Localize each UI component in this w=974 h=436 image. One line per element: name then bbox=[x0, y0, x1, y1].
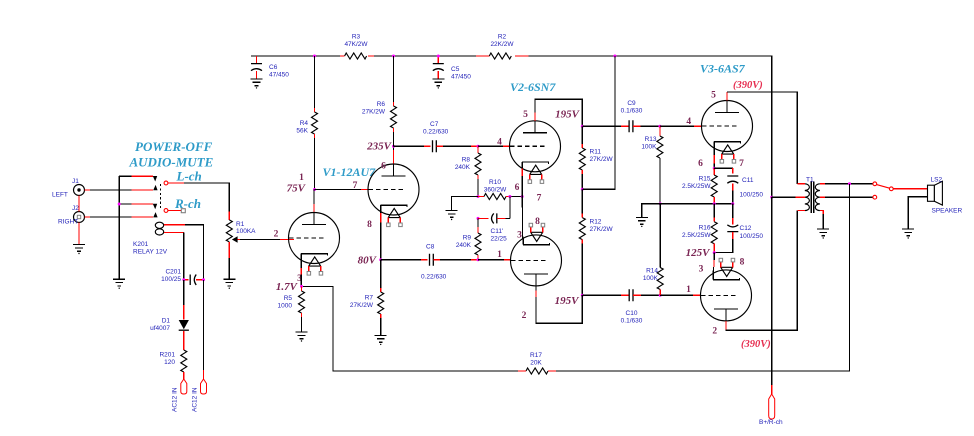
wire secondary bottom to ground bbox=[820, 211, 823, 229]
svg-text:R13: R13 bbox=[645, 136, 657, 143]
wire C10 node to V3b pin 1 bbox=[660, 285, 700, 295]
terminal AC12 IN (1) bbox=[172, 379, 187, 412]
svg-text:C7: C7 bbox=[430, 121, 439, 128]
svg-text:V1-12AU7: V1-12AU7 bbox=[323, 165, 377, 179]
wire C7 to V2a grid node bbox=[436, 145, 478, 147]
wire 235V node to C7 bbox=[394, 145, 431, 147]
svg-text:7: 7 bbox=[739, 159, 744, 169]
wire parallel bar R10/C11' bbox=[509, 197, 511, 219]
triode V3b (6AS7 bottom half, inverted) bbox=[701, 258, 752, 321]
node C201 left bbox=[182, 278, 185, 281]
svg-text:195V: 195V bbox=[555, 109, 581, 121]
terminal B+/R-ch bbox=[759, 394, 783, 426]
contact pole circle L-ch bbox=[164, 181, 168, 185]
resistor R5 1000 bbox=[278, 286, 305, 332]
ground (bias network) bbox=[446, 211, 458, 221]
svg-text:AC12 IN: AC12 IN bbox=[192, 387, 199, 412]
wire speaker return to ground bbox=[908, 197, 927, 229]
diode D1 uf4007 bbox=[150, 318, 189, 333]
node C10 tap (V2b plate) bbox=[581, 294, 584, 297]
svg-text:6: 6 bbox=[698, 159, 703, 169]
svg-text:C8: C8 bbox=[426, 244, 435, 251]
svg-text:RELAY 12V: RELAY 12V bbox=[133, 249, 168, 256]
wire J1 to relay NO contact bbox=[85, 189, 153, 191]
svg-text:100K: 100K bbox=[641, 144, 657, 151]
svg-text:27K/2W: 27K/2W bbox=[350, 302, 374, 309]
svg-text:0.1/630: 0.1/630 bbox=[621, 108, 643, 115]
svg-text:20K: 20K bbox=[530, 360, 542, 367]
capacitor C10 0.1/630 bbox=[582, 289, 660, 324]
capacitor C5 47/450 bbox=[433, 56, 471, 81]
svg-text:27K/2W: 27K/2W bbox=[590, 226, 614, 233]
svg-text:8: 8 bbox=[740, 258, 745, 268]
node 75V (V1a plate) bbox=[313, 188, 316, 191]
svg-text:B+/R-ch: B+/R-ch bbox=[759, 419, 783, 426]
ground (R7) bbox=[375, 335, 387, 345]
node R8/R10/ground bbox=[477, 195, 480, 198]
svg-text:2.5K/25W: 2.5K/25W bbox=[682, 232, 711, 239]
node rail/R6 bbox=[392, 55, 395, 58]
node V3a cathode bbox=[713, 167, 716, 170]
svg-text:POWER-OFF: POWER-OFF bbox=[135, 139, 213, 154]
svg-text:R12: R12 bbox=[590, 219, 602, 226]
resistor R201 120 bbox=[159, 350, 186, 372]
svg-text:4: 4 bbox=[497, 138, 502, 148]
wire primary center tap to B+ line bbox=[772, 196, 805, 198]
transformer T1 bbox=[805, 177, 820, 214]
node R15 bottom bbox=[713, 202, 716, 205]
wire V2b plate to C10 node bbox=[536, 286, 582, 323]
svg-text:R4: R4 bbox=[300, 120, 309, 127]
speaker LS2 bbox=[928, 177, 963, 215]
svg-text:3: 3 bbox=[699, 265, 704, 275]
svg-text:R3: R3 bbox=[352, 34, 361, 41]
svg-text:uf4007: uf4007 bbox=[150, 325, 170, 332]
svg-text:8: 8 bbox=[535, 217, 540, 227]
svg-text:2: 2 bbox=[522, 311, 527, 321]
resistor R8 240K bbox=[455, 146, 481, 196]
ground (R5) bbox=[296, 332, 308, 342]
svg-text:C11': C11' bbox=[491, 228, 504, 235]
svg-text:6: 6 bbox=[381, 162, 386, 172]
label POWER-OFF AUDIO-MUTE bbox=[129, 139, 214, 170]
wire global feedback loop bbox=[303, 184, 850, 371]
label pin 1 and 75V bbox=[287, 173, 307, 195]
wire primary top lead bbox=[797, 183, 805, 185]
svg-text:100/250: 100/250 bbox=[740, 192, 764, 199]
wire J1-J2-ground bbox=[78, 196, 80, 245]
svg-text:R7: R7 bbox=[365, 295, 374, 302]
jack J1 (LEFT) bbox=[52, 178, 85, 199]
svg-text:7: 7 bbox=[537, 194, 542, 204]
svg-text:125V: 125V bbox=[686, 247, 712, 259]
capacitor C201 100/25 bbox=[161, 269, 203, 286]
svg-text:LEFT: LEFT bbox=[52, 192, 68, 199]
wire V1b cathode to 80V node bbox=[380, 212, 382, 260]
wire secondary mid lead bbox=[820, 196, 873, 198]
switch pole C bbox=[889, 187, 893, 191]
switch contact B bbox=[873, 195, 877, 199]
svg-text:5: 5 bbox=[523, 110, 528, 120]
wire B+ rail bbox=[251, 56, 772, 197]
svg-text:240K: 240K bbox=[455, 164, 471, 171]
capacitor C8 0.22/630 bbox=[421, 244, 447, 281]
svg-text:C12: C12 bbox=[740, 225, 752, 232]
ground (mute line) bbox=[113, 279, 125, 289]
ground (C5) bbox=[432, 79, 444, 89]
wire primary bottom lead bbox=[797, 210, 805, 212]
svg-text:SPEAKER: SPEAKER bbox=[932, 208, 963, 215]
wire to ground (bias network) bbox=[452, 197, 478, 211]
node C201 right bbox=[202, 278, 205, 281]
node feedback tap bbox=[848, 182, 851, 185]
svg-text:T1: T1 bbox=[806, 177, 814, 184]
node rail/R4 bbox=[313, 55, 316, 58]
svg-text:R10: R10 bbox=[489, 179, 501, 186]
relay mechanical link (dashed) bbox=[159, 184, 161, 210]
jack J2 (RIGHT) bbox=[58, 205, 85, 226]
wire relay coil leads bbox=[164, 225, 204, 280]
wire V2a plate to R11/C9 bbox=[535, 99, 582, 126]
wire C8 to V2b grid node bbox=[433, 259, 478, 261]
svg-text:27K/2W: 27K/2W bbox=[590, 156, 614, 163]
wire V1b plate to 235V node bbox=[393, 146, 395, 163]
wire 75V node down to V1a plate bbox=[313, 190, 315, 213]
resistor R14 100K bbox=[643, 204, 663, 296]
svg-text:1000: 1000 bbox=[278, 303, 293, 310]
wire 75V node to V1b grid pin 7 bbox=[315, 181, 369, 191]
svg-text:R11: R11 bbox=[590, 149, 602, 156]
svg-text:120: 120 bbox=[164, 359, 175, 366]
svg-text:C201: C201 bbox=[165, 269, 181, 276]
wire R-ch stub to terminal bbox=[168, 210, 181, 212]
ground (secondary) bbox=[817, 229, 829, 239]
svg-text:240K: 240K bbox=[456, 242, 472, 249]
resistor R17 20K bbox=[518, 352, 556, 374]
wire C9 node to V3a pin 4 bbox=[660, 117, 702, 127]
resistor R10 360/2W bbox=[478, 179, 522, 200]
svg-text:AC12 IN: AC12 IN bbox=[172, 387, 179, 412]
wire R201 to AC terminal bbox=[183, 372, 185, 379]
wire V3b plate to transformer primary bottom bbox=[726, 211, 797, 331]
resistor R4 56K bbox=[296, 56, 317, 190]
node R10 right bbox=[508, 195, 511, 198]
wire cathode return bus bbox=[660, 203, 733, 205]
svg-text:AUDIO-MUTE: AUDIO-MUTE bbox=[129, 155, 214, 170]
node rail/C5 bbox=[437, 55, 440, 58]
svg-text:L-ch: L-ch bbox=[176, 169, 202, 184]
ground (driver return) bbox=[636, 217, 648, 227]
node R13 top bbox=[658, 125, 661, 128]
switch contact A bbox=[873, 182, 877, 186]
svg-text:J1: J1 bbox=[72, 178, 79, 185]
svg-text:V3-6AS7: V3-6AS7 bbox=[700, 62, 746, 76]
switch blade bbox=[877, 185, 890, 189]
svg-text:R1: R1 bbox=[236, 221, 245, 228]
wire J2 to relay NO contact bbox=[85, 216, 153, 218]
capacitor C9 0.1/630 bbox=[582, 100, 660, 132]
node C11 bottom bbox=[731, 202, 734, 205]
svg-text:C5: C5 bbox=[451, 66, 460, 73]
svg-text:R14: R14 bbox=[646, 268, 658, 275]
potentiometer R1 100KA bbox=[226, 220, 256, 279]
svg-text:8: 8 bbox=[367, 220, 372, 230]
wire V3a plate to transformer primary top bbox=[727, 92, 797, 184]
R-ch open terminal square bbox=[181, 209, 185, 213]
node C11' left bbox=[477, 217, 480, 220]
svg-text:4: 4 bbox=[686, 117, 691, 127]
triode V1a (12AU7 first half) bbox=[289, 213, 340, 276]
ground (R1) bbox=[223, 279, 235, 289]
triode V2a (6SN7 top half) bbox=[510, 121, 561, 184]
svg-text:R201: R201 bbox=[159, 352, 175, 359]
node 1.7V bbox=[300, 285, 303, 288]
wire grid node to V2b pin 1 bbox=[478, 250, 511, 260]
svg-text:C9: C9 bbox=[627, 100, 636, 107]
node mute line junction bbox=[118, 203, 121, 206]
svg-text:R16: R16 bbox=[699, 225, 711, 232]
node R13 bottom / cathode return bbox=[659, 202, 662, 205]
wire B+ line down to terminal bbox=[771, 197, 773, 394]
svg-text:0.1/630: 0.1/630 bbox=[621, 318, 643, 325]
svg-text:47/450: 47/450 bbox=[451, 74, 471, 81]
resistor R3 47K/2W bbox=[344, 34, 368, 60]
svg-text:80V: 80V bbox=[358, 254, 378, 266]
relay contact arrows L-ch bbox=[153, 176, 158, 190]
svg-text:R-ch: R-ch bbox=[174, 196, 201, 211]
wire 80V node to C8 bbox=[381, 259, 428, 261]
node B+ tap at R11/R12 bbox=[581, 188, 584, 191]
wire relay line to AC terminal bbox=[203, 280, 205, 379]
svg-text:100/250: 100/250 bbox=[740, 233, 764, 240]
node B+ / primary tap bbox=[770, 196, 773, 199]
resistor R7 27K/2W bbox=[350, 260, 384, 336]
svg-text:C10: C10 bbox=[626, 310, 638, 317]
relay contact arrows R-ch bbox=[153, 204, 158, 218]
svg-text:0.22/630: 0.22/630 bbox=[421, 274, 447, 281]
svg-text:1: 1 bbox=[299, 173, 304, 183]
ground (input jacks) bbox=[73, 245, 85, 255]
triode V2b (6SN7 bottom half, inverted) bbox=[511, 223, 562, 286]
resistor R12 27K/2W bbox=[579, 189, 613, 295]
svg-text:R15: R15 bbox=[699, 176, 711, 183]
svg-text:R9: R9 bbox=[463, 235, 472, 242]
svg-text:J2: J2 bbox=[72, 205, 79, 212]
svg-text:V2-6SN7: V2-6SN7 bbox=[510, 80, 556, 94]
node rail/V2 tap bbox=[613, 55, 616, 58]
svg-text:1.7V: 1.7V bbox=[276, 281, 299, 293]
capacitor C12 100/250 bbox=[714, 204, 763, 253]
svg-text:47K/2W: 47K/2W bbox=[344, 41, 368, 48]
wire grid node to V2a pin 4 bbox=[478, 138, 510, 148]
wire 125V node to V3b cathode bbox=[713, 253, 714, 274]
svg-text:7: 7 bbox=[353, 181, 358, 191]
svg-text:R6: R6 bbox=[377, 101, 386, 108]
node V2a grid (C7/R8) bbox=[477, 145, 480, 148]
terminal AC12 IN (2) bbox=[192, 379, 207, 412]
svg-text:5: 5 bbox=[711, 91, 716, 101]
svg-text:LS2: LS2 bbox=[931, 177, 943, 184]
resistor R16 2.5K/25W bbox=[682, 204, 717, 253]
wire V1a cathode to 1.7V node bbox=[300, 260, 302, 286]
wire R1 wiper to V1a grid pin 2 bbox=[238, 239, 294, 241]
svg-text:RIGHT: RIGHT bbox=[58, 219, 78, 226]
node 235V bbox=[392, 145, 395, 148]
wire to ground (driver return) bbox=[642, 204, 660, 218]
capacitor C7 0.22/630 bbox=[423, 121, 449, 152]
svg-text:27K/2W: 27K/2W bbox=[362, 109, 386, 116]
relay coil K201 bbox=[133, 222, 168, 255]
wire V2a cathode down to V2b cathode bbox=[522, 169, 523, 239]
svg-text:C6: C6 bbox=[269, 64, 278, 71]
resistor R13 100K bbox=[641, 126, 663, 203]
svg-text:1: 1 bbox=[497, 250, 502, 260]
svg-text:47/450: 47/450 bbox=[269, 72, 289, 79]
svg-text:0.22/630: 0.22/630 bbox=[423, 129, 449, 136]
svg-text:K201: K201 bbox=[133, 241, 149, 248]
svg-text:2: 2 bbox=[274, 230, 279, 240]
svg-text:100/25: 100/25 bbox=[161, 276, 181, 283]
svg-text:2.5K/25W: 2.5K/25W bbox=[682, 183, 711, 190]
wire B+ tap to rail bbox=[582, 56, 615, 189]
resistor R9 240K bbox=[456, 218, 481, 260]
svg-text:235V: 235V bbox=[366, 141, 393, 153]
svg-text:R17: R17 bbox=[530, 352, 542, 359]
svg-text:C11: C11 bbox=[742, 177, 754, 184]
capacitor C6 47/450 bbox=[251, 56, 289, 79]
svg-text:22/25: 22/25 bbox=[491, 236, 508, 243]
wire mute common line to ground bbox=[119, 176, 153, 279]
resistor R6 27K/2W bbox=[362, 56, 397, 146]
svg-text:360/2W: 360/2W bbox=[484, 187, 507, 194]
ground (speaker) bbox=[902, 229, 914, 239]
resistor R11 27K/2W bbox=[579, 126, 613, 189]
wire L-ch to volume pot R1 bbox=[168, 183, 229, 220]
node V2b grid (C8/R9) bbox=[477, 258, 480, 261]
resistor R2 22K/2W bbox=[489, 34, 514, 60]
wire switch to speaker bbox=[893, 188, 927, 190]
svg-text:6: 6 bbox=[515, 183, 520, 193]
capacitor C11 100/250 bbox=[714, 168, 763, 204]
svg-text:(390V): (390V) bbox=[741, 339, 771, 350]
svg-text:2: 2 bbox=[712, 327, 717, 337]
ground (C6) bbox=[251, 79, 263, 89]
svg-text:195V: 195V bbox=[555, 295, 581, 307]
wire C201 down to diode bbox=[183, 280, 185, 320]
svg-text:100KA: 100KA bbox=[236, 228, 256, 235]
capacitor C11' 22/25 bbox=[478, 213, 510, 242]
svg-text:75V: 75V bbox=[287, 183, 307, 195]
svg-text:100K: 100K bbox=[643, 275, 659, 282]
node V2 cathode junction bbox=[521, 195, 524, 198]
node C9 tap bbox=[581, 125, 584, 128]
triode V1b (12AU7 second half) bbox=[368, 164, 419, 227]
triode V3a (6AS7 top half) bbox=[702, 101, 753, 164]
svg-text:(390V): (390V) bbox=[733, 80, 763, 91]
svg-text:56K: 56K bbox=[296, 128, 308, 135]
wire diode to R201 bbox=[183, 331, 185, 350]
svg-text:R5: R5 bbox=[284, 295, 293, 302]
svg-text:22K/2W: 22K/2W bbox=[490, 41, 514, 48]
svg-text:R2: R2 bbox=[498, 34, 507, 41]
wire secondary top lead bbox=[820, 183, 873, 185]
svg-text:D1: D1 bbox=[162, 318, 171, 325]
svg-text:R8: R8 bbox=[462, 157, 471, 164]
svg-text:1: 1 bbox=[686, 285, 691, 295]
contact pole circle R-ch bbox=[164, 209, 168, 213]
node 80V bbox=[379, 258, 382, 261]
wire V3a cathode node bbox=[713, 148, 715, 168]
node 125V (V3b cathode) bbox=[713, 251, 716, 254]
node R14 bottom bbox=[659, 294, 662, 297]
resistor R15 2.5K/25W bbox=[682, 168, 717, 204]
